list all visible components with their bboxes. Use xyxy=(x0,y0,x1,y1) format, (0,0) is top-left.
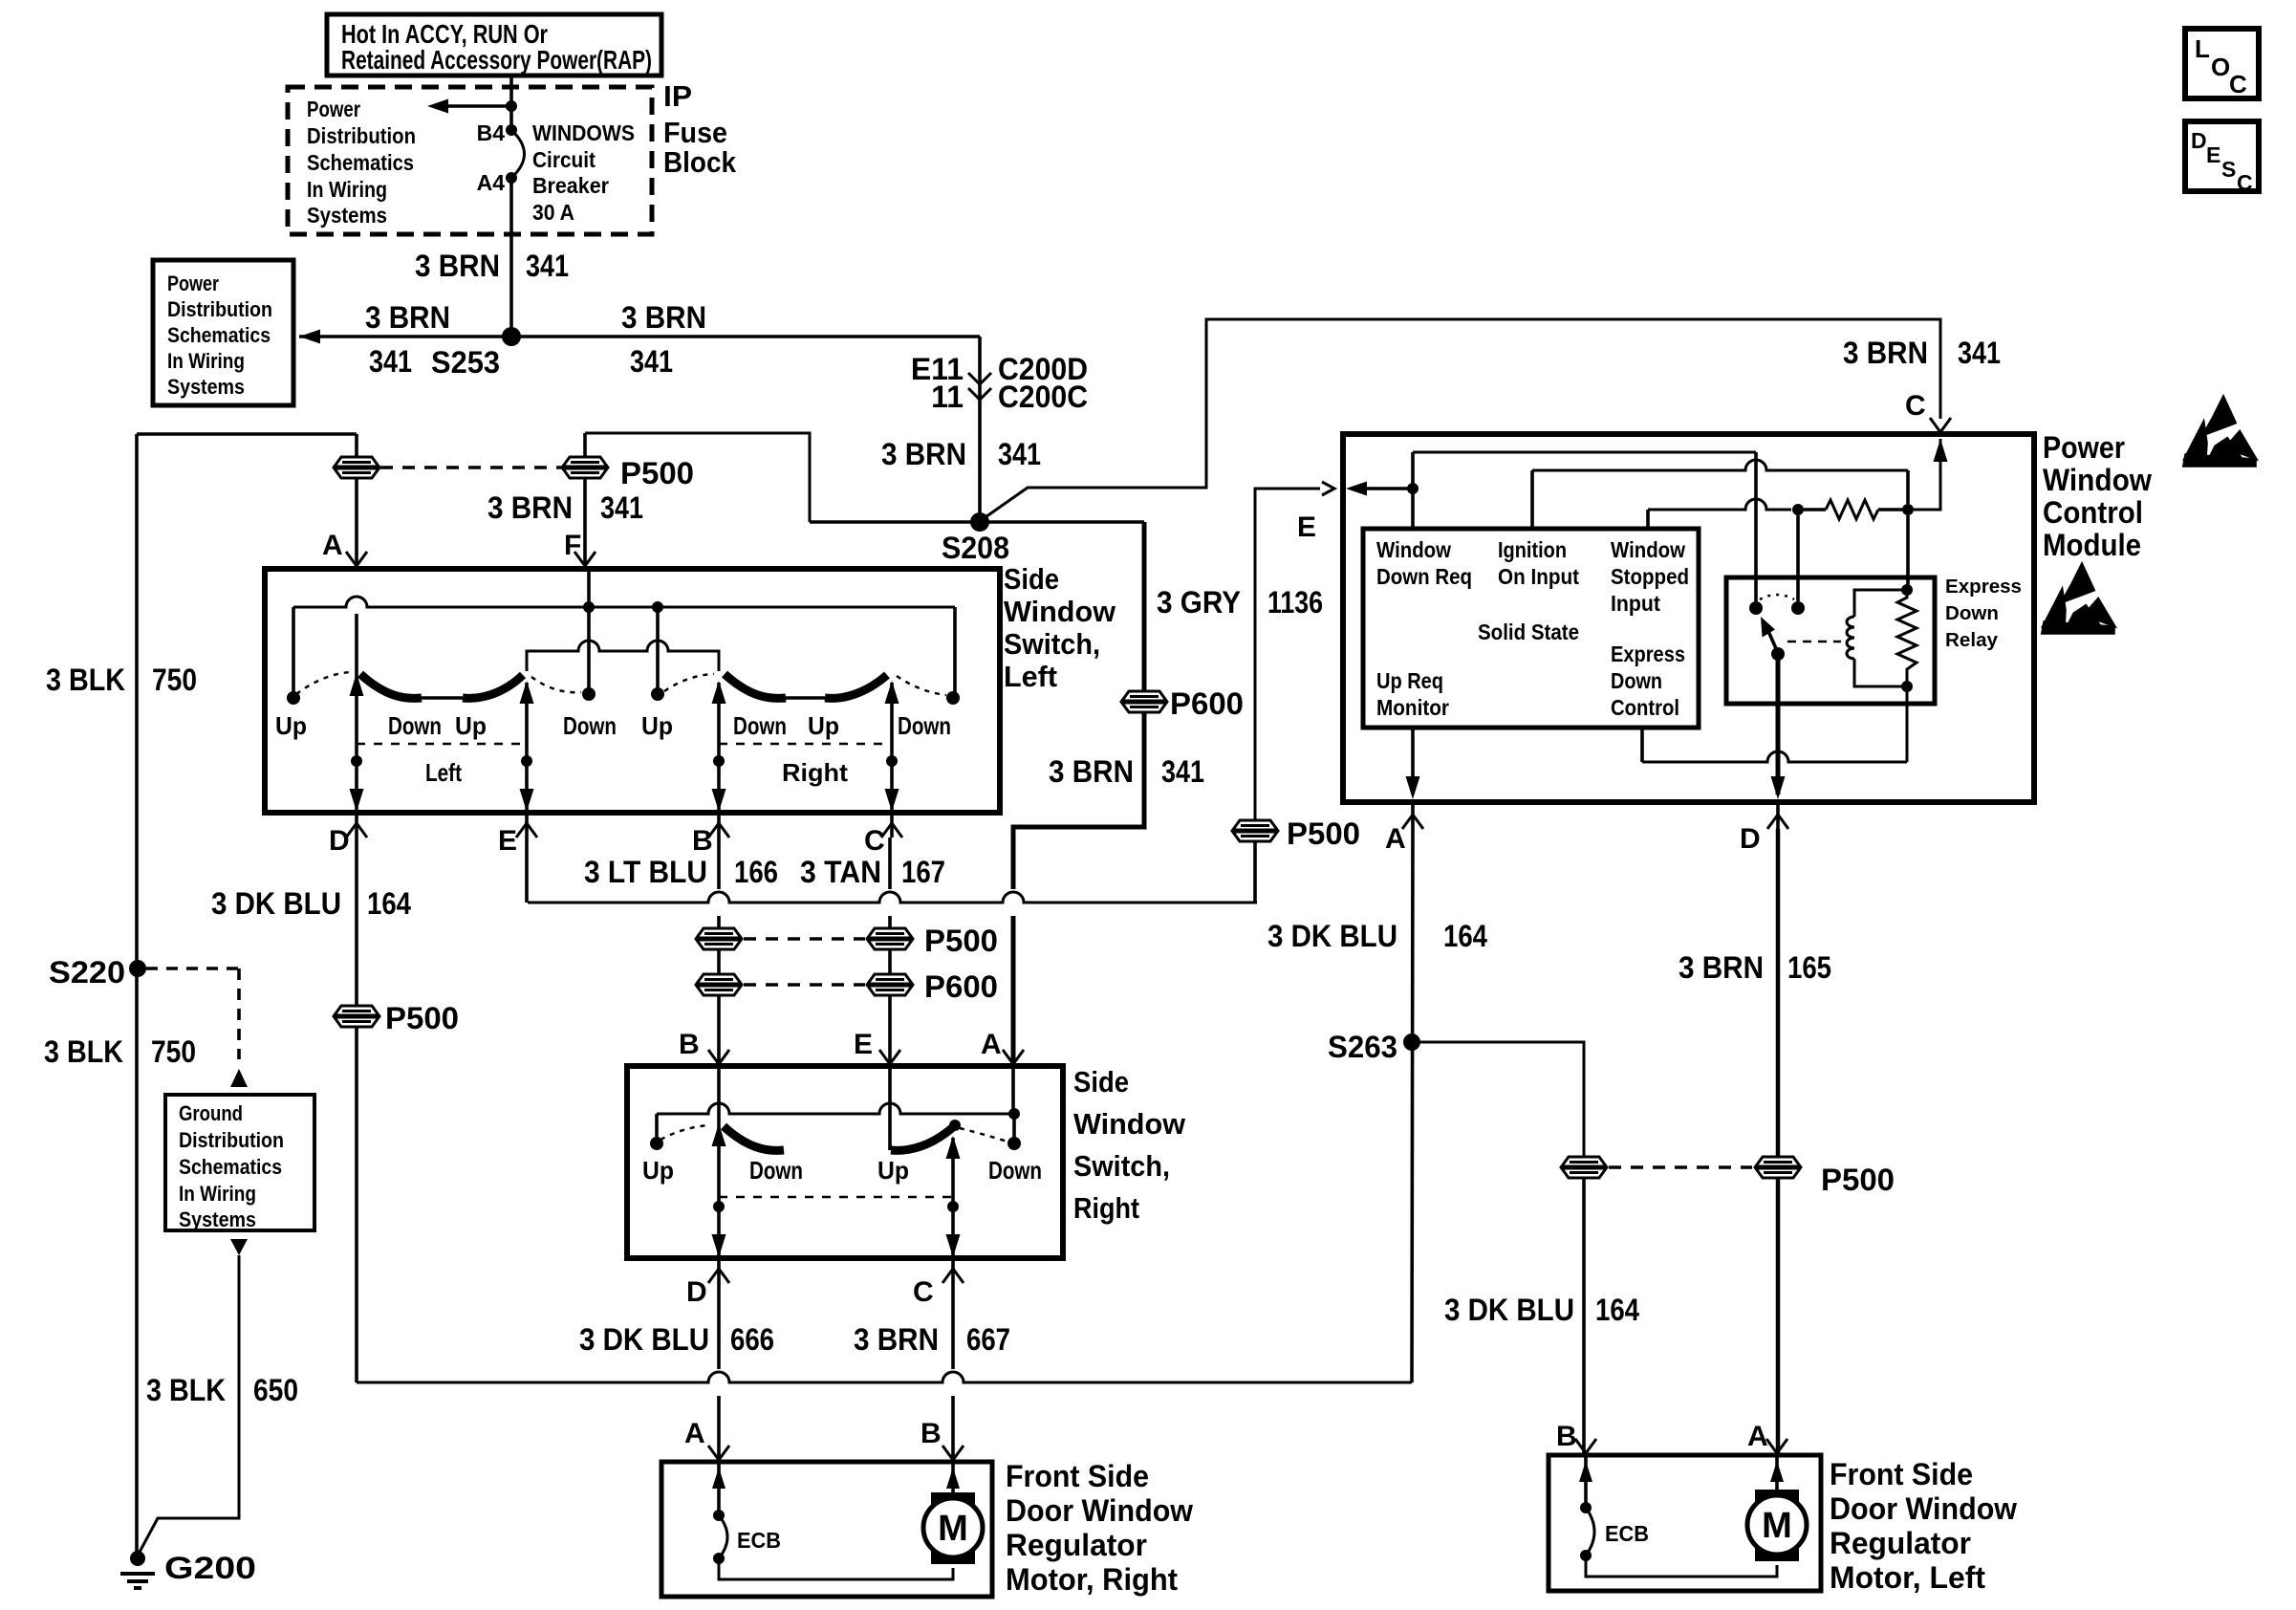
svg-text:C200C: C200C xyxy=(998,380,1088,414)
svg-text:S: S xyxy=(2221,157,2236,182)
svg-text:Systems: Systems xyxy=(179,1207,256,1231)
svg-text:Side: Side xyxy=(1073,1065,1129,1099)
wire C column 3 BRN 667 xyxy=(951,1283,955,1369)
svg-text:D: D xyxy=(1740,823,1761,855)
svg-text:A: A xyxy=(322,530,343,561)
connector P500 (switch A feed) xyxy=(334,457,379,478)
switch wiper D (left window) xyxy=(355,614,358,813)
DESC reference box xyxy=(2185,121,2259,191)
svg-text:Window: Window xyxy=(1376,537,1451,562)
svg-text:C: C xyxy=(864,825,885,857)
wire S253 left to power distribution schematics (arrow) xyxy=(299,335,511,338)
solid state box xyxy=(1363,529,1699,728)
Front Side Door Window Regulator Motor Right box xyxy=(661,1462,992,1597)
svg-text:Power: Power xyxy=(167,272,219,295)
switch wiper C xyxy=(890,683,894,813)
connector P600 (C column) xyxy=(867,974,913,995)
branch S263 to left motor pin B xyxy=(1412,1042,1584,1157)
svg-text:Circuit: Circuit xyxy=(532,147,596,172)
connector P500 (E column) xyxy=(1232,820,1278,841)
arrow out bottom of box xyxy=(230,1239,248,1255)
svg-text:D: D xyxy=(2191,128,2207,153)
relay coil xyxy=(1854,590,1907,617)
window down req feedback wire xyxy=(1411,452,1415,529)
svg-text:Stopped: Stopped xyxy=(1611,564,1689,589)
svg-text:Monitor: Monitor xyxy=(1376,695,1449,720)
svg-text:Down: Down xyxy=(388,711,442,740)
pin E of left switch xyxy=(516,823,537,838)
svg-text:30 A: 30 A xyxy=(532,200,574,225)
node xyxy=(1792,504,1804,515)
svg-text:D: D xyxy=(686,1276,707,1308)
wire from F-P500 over to S208 line xyxy=(585,433,810,522)
relay contact 2 xyxy=(1791,601,1805,615)
up req monitor wire to pin A xyxy=(1411,728,1415,794)
dashed travel arcs xyxy=(296,672,351,694)
svg-text:3 BLK: 3 BLK xyxy=(46,663,125,697)
link to motor xyxy=(719,1558,953,1579)
svg-text:Front Side: Front Side xyxy=(1830,1457,1973,1491)
pin A lead with ECB xyxy=(717,1462,721,1515)
svg-text:Down: Down xyxy=(898,711,951,740)
ESD symbol (upper right) xyxy=(2184,398,2255,466)
svg-text:B: B xyxy=(679,1029,700,1060)
switch wiper B (right window) xyxy=(717,683,721,813)
pin B lead xyxy=(951,1462,955,1494)
svg-text:B: B xyxy=(692,825,713,857)
svg-text:E: E xyxy=(1297,511,1316,543)
svg-text:341: 341 xyxy=(369,344,412,379)
dashed stub to ground distribution box xyxy=(146,967,239,970)
svg-text:M: M xyxy=(1762,1506,1792,1546)
svg-text:A4: A4 xyxy=(477,170,506,195)
svg-text:F: F xyxy=(564,530,581,561)
svg-text:3 BRN: 3 BRN xyxy=(1679,950,1764,985)
mechanical link dashed xyxy=(719,1196,953,1199)
svg-text:3 BLK: 3 BLK xyxy=(44,1034,123,1069)
ignition on input wire xyxy=(1530,470,1534,529)
wire D column 3 DK BLU 666 xyxy=(717,1283,721,1369)
pin E entering left side xyxy=(1322,482,1334,495)
svg-text:On Input: On Input xyxy=(1498,564,1579,589)
wire S208 horizontal xyxy=(810,520,1144,524)
svg-text:Down: Down xyxy=(733,711,787,740)
wires down into relay xyxy=(1796,515,1800,601)
svg-text:3 DK BLU: 3 DK BLU xyxy=(579,1322,709,1357)
svg-text:P600: P600 xyxy=(1170,686,1244,721)
pin D of PWCM xyxy=(1767,815,1788,829)
svg-text:3 BRN: 3 BRN xyxy=(854,1322,939,1357)
svg-text:Up: Up xyxy=(641,711,673,740)
svg-text:Systems: Systems xyxy=(167,375,245,399)
node on F column xyxy=(583,601,595,613)
svg-text:3 BRN: 3 BRN xyxy=(1049,754,1134,789)
svg-text:L: L xyxy=(2195,34,2210,63)
connector P500 (B column) xyxy=(696,928,742,949)
svg-text:Block: Block xyxy=(663,145,737,179)
pin A lead xyxy=(1775,1455,1779,1491)
svg-text:Control: Control xyxy=(2043,495,2143,530)
window stopped input wire xyxy=(1646,510,1650,529)
pin A of PWCM xyxy=(1402,815,1423,829)
dotted throw arc xyxy=(1760,595,1794,599)
circuit breaker WINDOWS 30 A xyxy=(511,130,525,178)
svg-text:Up Req: Up Req xyxy=(1376,668,1443,693)
dashed travel arcs xyxy=(661,1125,709,1140)
svg-text:3 TAN: 3 TAN xyxy=(800,855,881,889)
ECB element xyxy=(719,1515,727,1558)
dashed connector link xyxy=(380,466,562,469)
svg-text:Down Req: Down Req xyxy=(1376,564,1472,589)
svg-text:Ignition: Ignition xyxy=(1498,537,1567,562)
wire D column 3 BRN 165 xyxy=(1776,829,1781,1157)
svg-text:P500: P500 xyxy=(1821,1163,1895,1197)
svg-text:M: M xyxy=(938,1509,968,1549)
svg-text:S263: S263 xyxy=(1328,1030,1397,1064)
pin D of left switch xyxy=(346,823,367,838)
node xyxy=(1902,504,1914,515)
internal feed bus with hops xyxy=(657,1103,1014,1114)
svg-text:In Wiring: In Wiring xyxy=(167,349,245,373)
svg-text:166: 166 xyxy=(734,855,778,889)
svg-text:Solid State: Solid State xyxy=(1478,620,1579,644)
svg-text:C: C xyxy=(2229,70,2247,98)
wire branch left with arrow xyxy=(435,104,511,108)
svg-text:Systems: Systems xyxy=(307,203,387,228)
drop to Up contact xyxy=(655,1114,659,1138)
connector P600 (B column) xyxy=(696,974,742,995)
link to motor xyxy=(1586,1556,1777,1577)
second internal bus with end drops and hops xyxy=(527,641,719,671)
svg-text:164: 164 xyxy=(367,886,411,921)
splice S263 xyxy=(1403,1033,1420,1051)
svg-text:Left: Left xyxy=(1004,660,1057,693)
svg-text:750: 750 xyxy=(152,663,197,697)
svg-text:341: 341 xyxy=(998,437,1041,471)
svg-text:Down: Down xyxy=(563,711,617,740)
svg-text:Window: Window xyxy=(1004,595,1116,628)
drop to Up contact (far left) xyxy=(292,607,295,692)
svg-text:Control: Control xyxy=(1611,695,1679,720)
wire A column 3 DK BLU 164 xyxy=(1412,829,1413,1382)
relay resistor (vertical) xyxy=(1901,584,1913,596)
relay drive vertical xyxy=(1754,452,1758,601)
wire F column xyxy=(583,433,587,457)
contact dot Up xyxy=(650,1137,663,1150)
F column down to Down contact xyxy=(587,569,591,688)
svg-text:164: 164 xyxy=(1595,1293,1639,1327)
Power Window Control Module box xyxy=(1343,434,2034,802)
svg-text:Down: Down xyxy=(749,1156,803,1185)
svg-text:WINDOWS: WINDOWS xyxy=(532,120,635,145)
svg-text:E: E xyxy=(2206,142,2220,167)
svg-text:Input: Input xyxy=(1611,591,1660,616)
svg-text:Module: Module xyxy=(2043,528,2141,562)
terminal A4 xyxy=(506,172,517,184)
svg-text:3 BRN: 3 BRN xyxy=(487,490,573,525)
svg-text:O: O xyxy=(2211,53,2230,81)
connector P500 (D column) xyxy=(334,1006,379,1027)
svg-text:P500: P500 xyxy=(924,924,998,958)
connector P500 (breaker feed F) xyxy=(562,457,608,478)
svg-text:Motor, Left: Motor, Left xyxy=(1830,1560,1985,1595)
rocker contact (right pair) xyxy=(891,1127,953,1150)
wire relay to express down control xyxy=(1906,686,1909,762)
svg-text:P500: P500 xyxy=(620,456,694,490)
svg-text:Retained Accessory Power(RAP): Retained Accessory Power(RAP) xyxy=(341,45,652,75)
ground G200 xyxy=(130,1551,145,1566)
svg-text:667: 667 xyxy=(966,1322,1010,1357)
Side Window Switch Left box xyxy=(265,569,1000,813)
svg-text:3 GRY: 3 GRY xyxy=(1157,585,1241,620)
svg-text:Switch,: Switch, xyxy=(1004,627,1100,661)
switch wiper C xyxy=(951,1138,955,1258)
wire 3 BLK 650 to G200 xyxy=(138,1255,239,1556)
resistor xyxy=(1826,500,1878,519)
svg-text:Ground: Ground xyxy=(179,1101,243,1125)
svg-text:Distribution: Distribution xyxy=(179,1128,284,1152)
svg-text:3 DK BLU: 3 DK BLU xyxy=(211,886,341,921)
svg-text:Down: Down xyxy=(1945,603,1999,624)
pin C of left switch xyxy=(881,823,902,838)
Express Down Relay box xyxy=(1726,577,1935,704)
svg-text:Right: Right xyxy=(782,758,848,787)
svg-text:Regulator: Regulator xyxy=(1006,1528,1147,1562)
splice S220 xyxy=(129,960,146,977)
svg-text:Right: Right xyxy=(1073,1191,1139,1225)
svg-text:Express: Express xyxy=(1945,577,2022,598)
svg-text:3 BRN: 3 BRN xyxy=(365,300,450,335)
svg-text:341: 341 xyxy=(600,490,643,525)
svg-text:Schematics: Schematics xyxy=(179,1155,282,1179)
svg-text:341: 341 xyxy=(526,249,569,283)
node at rocker end xyxy=(949,1120,961,1131)
power feed label box: Hot In ACCY RUN Or Retained Accessory Power(RAP) xyxy=(327,14,661,76)
svg-text:S253: S253 xyxy=(431,345,500,380)
mechanical link dashed (Left) xyxy=(357,743,527,746)
svg-text:ECB: ECB xyxy=(737,1528,781,1553)
pin B of right switch xyxy=(708,1050,729,1064)
svg-text:B: B xyxy=(1556,1421,1577,1452)
LOC reference box xyxy=(2185,29,2259,98)
svg-text:Side: Side xyxy=(1004,562,1059,596)
wire S208 column down (3 GRY 1136) xyxy=(1142,522,1147,691)
svg-text:G200: G200 xyxy=(164,1551,256,1585)
svg-text:Left: Left xyxy=(425,758,462,787)
mechanical link dashed (Right) xyxy=(719,743,892,746)
right window rocker contacts xyxy=(725,674,786,698)
svg-text:B: B xyxy=(921,1418,942,1449)
svg-text:Schematics: Schematics xyxy=(167,323,271,347)
terminal B4 xyxy=(506,124,517,136)
pin A of right motor xyxy=(708,1446,729,1460)
svg-text:Regulator: Regulator xyxy=(1830,1526,1971,1560)
svg-text:3 DK BLU: 3 DK BLU xyxy=(1444,1293,1574,1327)
svg-text:750: 750 xyxy=(151,1034,196,1069)
svg-text:Down: Down xyxy=(1611,668,1662,693)
svg-text:P600: P600 xyxy=(924,969,998,1004)
pin B of right motor xyxy=(942,1446,964,1460)
connector P500 (motor B column) xyxy=(1561,1157,1607,1178)
svg-text:Window: Window xyxy=(2043,463,2152,497)
wire S253 right to C200 xyxy=(511,335,980,338)
C wire inside to relay node xyxy=(1934,439,1948,462)
svg-text:650: 650 xyxy=(253,1373,298,1407)
svg-text:Up: Up xyxy=(808,711,839,740)
svg-text:3 BRN: 3 BRN xyxy=(1843,336,1928,370)
pin F of left switch xyxy=(574,552,596,566)
svg-text:Schematics: Schematics xyxy=(307,150,414,175)
relay contact 1 xyxy=(1749,601,1763,615)
Ground Distribution Schematics box xyxy=(165,1095,314,1230)
svg-text:341: 341 xyxy=(630,344,673,379)
cross-car bus 3 BRN 341 to PWCM pin E xyxy=(528,892,1257,903)
svg-text:A: A xyxy=(1747,1421,1768,1452)
contact dot Up (center-right) xyxy=(651,687,664,701)
wire to left switch pin A xyxy=(355,434,358,457)
svg-text:A: A xyxy=(1385,823,1406,855)
svg-text:Distribution: Distribution xyxy=(167,297,272,321)
svg-text:Relay: Relay xyxy=(1945,630,1999,651)
node on Up column xyxy=(652,601,663,613)
wire E pin to cross-car bus xyxy=(525,838,529,903)
ESD symbol (lower) xyxy=(2043,565,2113,633)
dashed actuator link xyxy=(1787,641,1841,643)
svg-text:167: 167 xyxy=(901,855,945,889)
node: branch to power distribution arrow xyxy=(506,100,517,112)
svg-text:Distribution: Distribution xyxy=(307,123,416,148)
contact dot Down (center-left) xyxy=(582,687,596,701)
left window rocker contacts xyxy=(360,674,422,698)
svg-text:3 BLK: 3 BLK xyxy=(146,1373,226,1407)
svg-text:Up: Up xyxy=(642,1156,674,1185)
svg-text:Up: Up xyxy=(275,711,307,740)
wire 3 BRN 341 to right switch pin A xyxy=(1013,712,1144,889)
svg-text:Down: Down xyxy=(988,1156,1042,1185)
svg-text:Power: Power xyxy=(307,97,360,121)
svg-text:3 BRN: 3 BRN xyxy=(415,249,500,283)
svg-text:Window: Window xyxy=(1073,1107,1186,1141)
svg-text:C: C xyxy=(1905,390,1926,422)
connector P500 (C column) xyxy=(867,928,913,949)
rocker contact (left pair) xyxy=(724,1126,784,1150)
contact dot Down xyxy=(1007,1137,1021,1150)
contact dot Up (far left) xyxy=(287,691,300,705)
svg-text:S220: S220 xyxy=(49,955,125,990)
E column down to rocker xyxy=(888,1066,892,1150)
svg-text:B4: B4 xyxy=(477,120,506,145)
svg-text:A: A xyxy=(981,1029,1002,1060)
svg-text:ECB: ECB xyxy=(1605,1521,1649,1546)
wire from RAP box to breaker B4 xyxy=(509,76,513,130)
motor M left xyxy=(1755,1490,1799,1509)
node A column xyxy=(1008,1108,1020,1120)
pin A of right switch xyxy=(1003,1050,1024,1064)
splice S253 xyxy=(502,327,521,346)
wire B column 3 LT BLU 166 xyxy=(717,838,721,889)
dashed connector links xyxy=(744,937,865,941)
pin E wire outside: down to P500 and bus xyxy=(1255,489,1320,820)
svg-text:Switch,: Switch, xyxy=(1073,1149,1170,1183)
svg-text:E: E xyxy=(854,1029,873,1060)
svg-text:666: 666 xyxy=(730,1322,774,1357)
svg-text:Motor, Right: Motor, Right xyxy=(1006,1562,1178,1597)
svg-text:D: D xyxy=(329,825,350,857)
svg-text:3 DK BLU: 3 DK BLU xyxy=(1267,919,1397,953)
pin A of left motor xyxy=(1766,1439,1787,1453)
connector P500 (motor A column) xyxy=(1755,1157,1801,1178)
Front Side Door Window Regulator Motor Left box xyxy=(1549,1455,1821,1591)
pin B of left motor xyxy=(1575,1439,1596,1453)
A column inside box xyxy=(1011,1066,1015,1114)
ground rail 3 BLK 750 (left side) xyxy=(135,434,139,1558)
svg-text:341: 341 xyxy=(1161,754,1204,789)
svg-text:Window: Window xyxy=(1611,537,1685,562)
svg-text:Front Side: Front Side xyxy=(1006,1459,1149,1493)
pin B of left switch xyxy=(708,823,729,838)
svg-text:In Wiring: In Wiring xyxy=(179,1182,256,1206)
IP Fuse Block dashed outline xyxy=(288,87,652,234)
svg-text:A: A xyxy=(684,1418,705,1449)
cross bus: left switch D column to S263 xyxy=(357,1372,1412,1382)
wire D column 3 DK BLU 164 xyxy=(355,838,358,1006)
svg-text:11: 11 xyxy=(931,380,964,414)
svg-text:Fuse: Fuse xyxy=(663,116,727,149)
svg-text:Door Window: Door Window xyxy=(1006,1493,1193,1528)
node window down req xyxy=(1407,483,1419,494)
pin D of right switch xyxy=(708,1269,729,1283)
Side Window Switch Right box xyxy=(627,1066,1063,1258)
dashed connector link xyxy=(1609,1165,1752,1169)
pin C of right switch xyxy=(942,1269,964,1283)
svg-text:Express: Express xyxy=(1611,642,1685,666)
svg-text:P500: P500 xyxy=(1287,816,1360,851)
pin C of PWCM xyxy=(1930,418,1951,432)
Power Distribution Schematics box (left) xyxy=(153,260,293,405)
internal feed bus (top) with hop over wiper D column xyxy=(293,597,955,607)
wire S208 branch up-right to power window control module pin C xyxy=(983,319,1940,519)
svg-text:1136: 1136 xyxy=(1267,585,1323,620)
svg-text:3 BRN: 3 BRN xyxy=(881,437,966,471)
pin B lead with ECB xyxy=(1584,1455,1588,1508)
svg-text:Power: Power xyxy=(2043,430,2125,465)
motor M right xyxy=(931,1492,975,1512)
svg-text:Door Window: Door Window xyxy=(1830,1491,2017,1526)
svg-text:164: 164 xyxy=(1443,919,1487,953)
relay switch blade xyxy=(1771,647,1785,661)
svg-text:IP: IP xyxy=(663,79,692,113)
svg-text:S208: S208 xyxy=(942,531,1009,565)
svg-text:C: C xyxy=(913,1276,934,1308)
connector C200D / C200C (pins E11 / 11) xyxy=(968,373,991,384)
contact dot Down (far right) xyxy=(946,691,960,705)
svg-text:165: 165 xyxy=(1787,950,1831,985)
svg-text:P500: P500 xyxy=(385,1001,459,1035)
pin E of right switch xyxy=(879,1050,900,1064)
connector P600 (S208 column) xyxy=(1121,691,1167,712)
splice S208 xyxy=(970,512,989,532)
svg-text:E: E xyxy=(498,825,517,857)
wire C column 3 TAN 167 xyxy=(888,838,892,889)
switch wiper E xyxy=(525,683,529,813)
svg-text:Up: Up xyxy=(455,711,487,740)
relay output wire to pin D xyxy=(1776,654,1781,794)
wire A4 down to S253 xyxy=(509,178,513,337)
drop to Down contact (far right) xyxy=(953,607,957,692)
ECB element xyxy=(1586,1508,1594,1556)
pin A of left switch xyxy=(346,552,367,566)
svg-text:Breaker: Breaker xyxy=(532,173,609,198)
